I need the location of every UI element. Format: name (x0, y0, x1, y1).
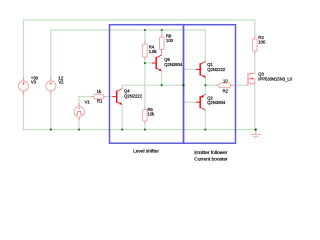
node Q2 ground junction (204, 129, 206, 131)
svg-text:Q2N3904: Q2N3904 (207, 100, 226, 105)
wire R1 to Q4 base (104, 96, 113, 98)
svg-text:V3: V3 (31, 79, 37, 84)
resistor R8 (161, 34, 163, 37)
wire Q6 emitter to signal (161, 71, 163, 85)
wire Q4 collector signal to base bus (122, 85, 183, 89)
wire top rail V3 to R3 (23, 20, 254, 79)
svg-text:100: 100 (166, 38, 174, 43)
transistor Q2 (196, 94, 206, 110)
svg-text:Q2N3904: Q2N3904 (164, 62, 183, 67)
node R8 top rail junction (161, 29, 163, 31)
svg-text:R1: R1 (97, 98, 103, 103)
wire R3 bottom to Q3 drain (254, 51, 256, 73)
wire V2 bottom (50, 93, 52, 130)
svg-text:Q2N2222: Q2N2222 (124, 94, 143, 99)
svg-text:10: 10 (223, 78, 228, 83)
transistor Q1 (196, 62, 206, 78)
wire ground rail (23, 93, 255, 130)
wire Q1 base (184, 68, 197, 70)
transistor Q6 (152, 55, 162, 71)
svg-text:IPP530N15N3_L0: IPP530N15N3_L0 (258, 76, 292, 81)
wire R5 bottom to ground (144, 121, 146, 130)
wire R4 R5 chain (144, 30, 146, 44)
resistor R1 (91, 96, 94, 98)
wire V2 rail to Q1 collector (51, 30, 206, 79)
ground (251, 130, 261, 139)
svg-text:R2: R2 (223, 88, 229, 93)
pulse source V1 (74, 103, 85, 120)
node Q1 emitter R2 junction (204, 84, 206, 86)
wire R8 top (161, 30, 163, 37)
node V2 ground junction (50, 129, 52, 131)
node R4 Q6 base junction (144, 62, 146, 64)
transistor Q4 (112, 89, 122, 105)
node R5 ground junction (144, 129, 146, 131)
svg-text:10k: 10k (148, 112, 156, 117)
wire node to R2 (205, 84, 219, 86)
node V1 ground junction (78, 129, 80, 131)
svg-text:Emitter follower: Emitter follower (194, 150, 227, 156)
node base bus junction (182, 84, 184, 86)
wire base bus (183, 69, 185, 102)
resistor R3 (254, 36, 256, 39)
voltage source V2 (46, 78, 56, 95)
wire R8 bottom to Q6 collector (161, 50, 163, 56)
resistor R4 (144, 41, 146, 44)
resistor R5 (144, 107, 146, 110)
wire R4 bottom to R5 top (144, 57, 146, 110)
MOSFET Q3 (248, 73, 255, 86)
node ground symbol junction (255, 128, 257, 130)
wire Q4 emitter to ground (121, 105, 123, 130)
node R4 top rail junction (144, 29, 146, 31)
wire V1 top to R1 (79, 97, 94, 106)
svg-text:V1: V1 (85, 99, 91, 104)
svg-text:1.8k: 1.8k (149, 49, 158, 54)
wire R2 to Q3 gate (230, 84, 248, 86)
wire Q2 emitter up (204, 85, 206, 94)
node Q4 emitter junction (121, 129, 123, 131)
resistor R2 (216, 84, 219, 86)
svg-text:Q2N2222: Q2N2222 (207, 67, 226, 72)
svg-text:V2: V2 (58, 79, 64, 84)
wire V1 bottom (78, 117, 80, 129)
wire Q2 collector to ground (204, 110, 206, 130)
svg-text:Current booster: Current booster (194, 156, 228, 162)
wire Q1 emitter to node (204, 77, 206, 85)
svg-text:100: 100 (258, 40, 266, 45)
wire Q2 base (184, 101, 197, 103)
voltage source V3 (18, 78, 28, 95)
wire Q3 source to ground (254, 84, 256, 130)
box Level shifter (110, 25, 184, 144)
svg-text:Level shifter: Level shifter (133, 149, 159, 155)
wire Q6 base (145, 62, 152, 64)
box Emitter follower (184, 25, 236, 144)
node Q6 emitter signal junction (161, 84, 163, 86)
